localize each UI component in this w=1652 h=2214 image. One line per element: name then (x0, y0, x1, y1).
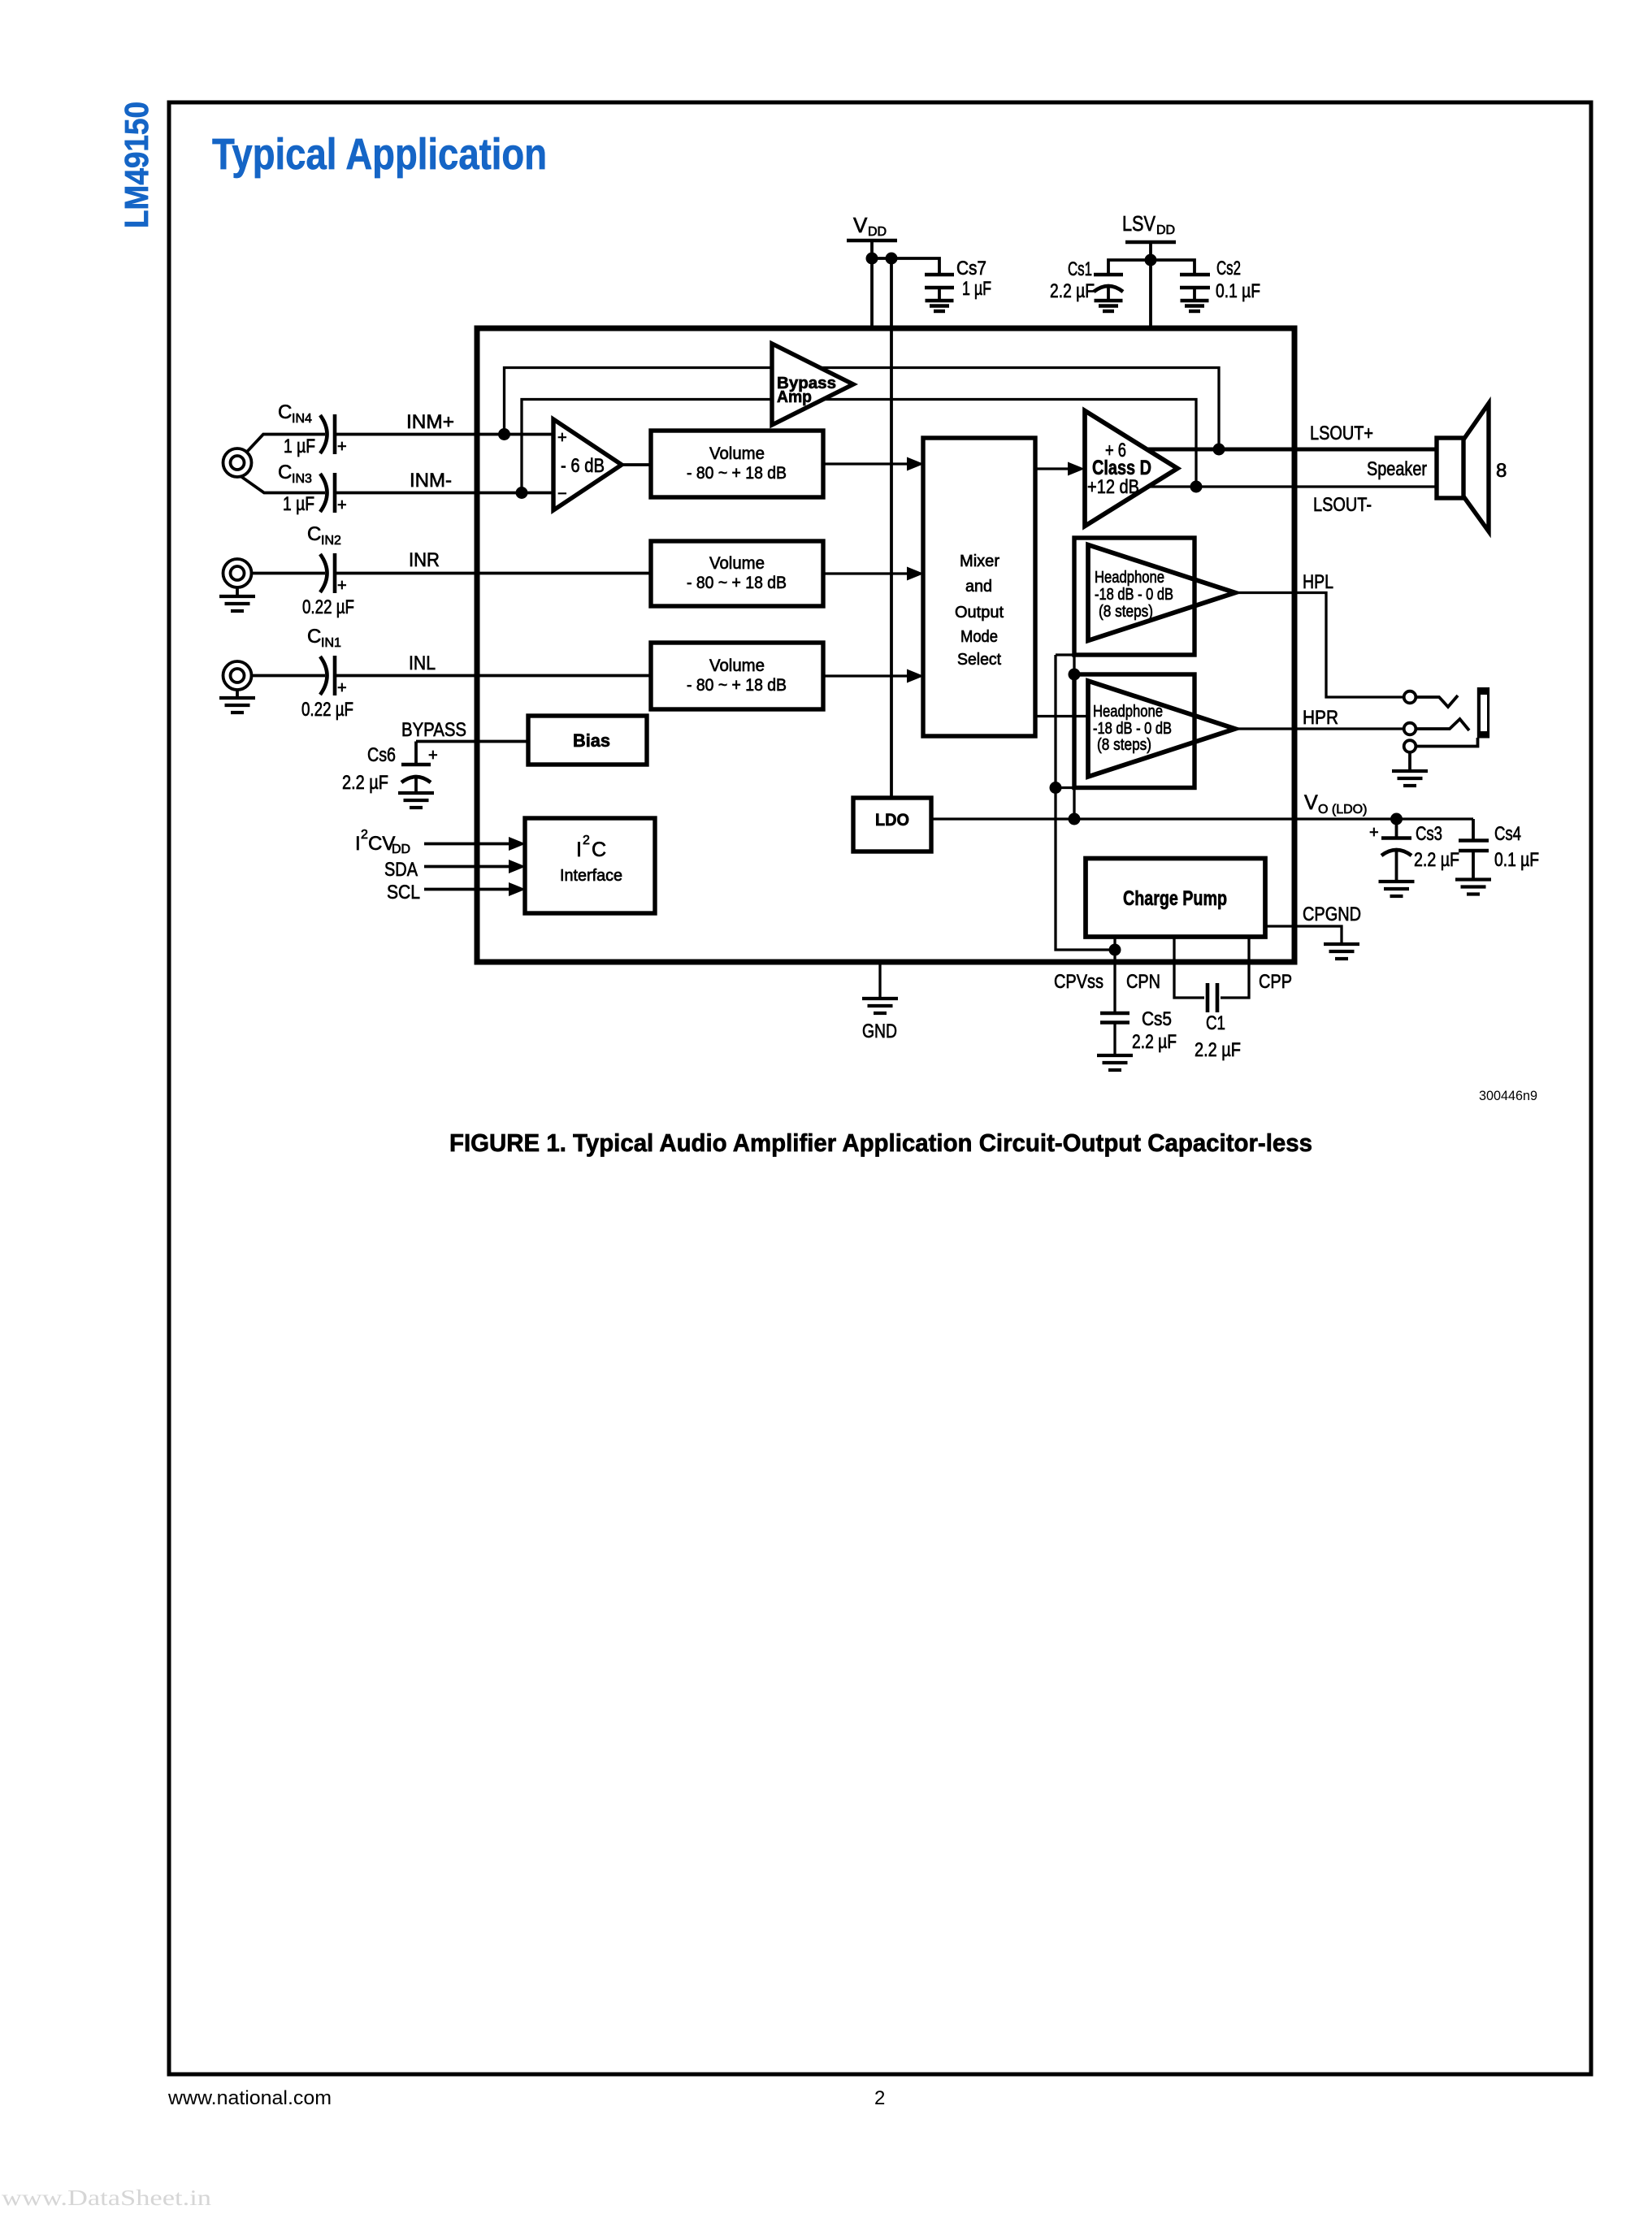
svg-text:Headphone: Headphone (1095, 569, 1164, 587)
svg-text:Mixer: Mixer (960, 552, 999, 570)
svg-text:LSOUT+: LSOUT+ (1310, 422, 1373, 444)
svg-text:BYPASS: BYPASS (401, 719, 466, 741)
svg-text:I: I (355, 833, 361, 855)
wire HPR output to jack ring (1235, 727, 1404, 730)
block Volume 2 (651, 541, 823, 606)
svg-text:2.2 µF: 2.2 µF (1050, 280, 1095, 302)
node HPR box bottom junction (1050, 782, 1062, 794)
node HPR box top junction (1069, 669, 1081, 681)
svg-text:www.DataSheet.in: www.DataSheet.in (2, 2186, 212, 2210)
node INM- feedback junction (516, 487, 528, 499)
svg-text:2.2 µF: 2.2 µF (1195, 1039, 1241, 1061)
svg-text:2: 2 (361, 828, 368, 842)
wire INL line (335, 674, 651, 678)
svg-text:Amp: Amp (777, 388, 812, 406)
node LSOUT+ feedback junction (1213, 444, 1225, 456)
svg-text:IN1: IN1 (321, 636, 341, 650)
label CIN4 (278, 401, 312, 426)
headphone jack tip switch lever (1416, 695, 1458, 707)
svg-text:0.22 µF: 0.22 µF (301, 699, 353, 721)
svg-text:C: C (307, 523, 321, 545)
svg-text:I: I (576, 838, 582, 861)
svg-text:2: 2 (583, 834, 590, 847)
wire mixer to Headphone R input (1035, 715, 1088, 717)
label Cs1 value (1050, 258, 1095, 302)
wire LSOUT- (1148, 485, 1437, 487)
capacitor C1 flying (1208, 983, 1217, 1012)
svg-text:- 80 ~ + 18 dB: - 80 ~ + 18 dB (687, 676, 787, 695)
node CPVss junction (1109, 944, 1121, 956)
svg-text:Headphone: Headphone (1093, 703, 1163, 721)
svg-text:Typical Application: Typical Application (212, 130, 547, 179)
block I2C Interface (525, 818, 655, 913)
svg-text:Output: Output (955, 604, 1004, 622)
svg-text:+: + (337, 679, 347, 697)
wire I2CVDD with arrow (424, 837, 526, 851)
svg-text:+: + (337, 577, 347, 595)
ground at jack sleeve (1392, 752, 1428, 786)
wire CPVss rail left (1056, 655, 1115, 950)
headphone jack sleeve contact (1404, 740, 1416, 752)
svg-text:+: + (1369, 824, 1379, 842)
svg-text:Cs5: Cs5 (1142, 1008, 1172, 1030)
svg-text:Interface: Interface (560, 867, 622, 885)
ground at Cs4 (1455, 880, 1491, 895)
svg-text:INM-: INM- (410, 470, 452, 492)
node VDD junction 1 (866, 253, 878, 265)
wire LSVDD into IC top (1149, 260, 1152, 328)
ground at Cs5 (1097, 1055, 1133, 1070)
svg-text:V: V (1304, 791, 1318, 814)
VDD supply bar (847, 239, 897, 243)
capacitor Cs3 polarized (1369, 819, 1411, 882)
input jack J3 INL (223, 661, 252, 690)
label Cs6 value (342, 744, 396, 794)
svg-text:DD: DD (392, 843, 410, 856)
svg-text:+: + (337, 496, 347, 514)
wire Volume1 to mixer with arrow (823, 457, 924, 471)
wire INM+ line (335, 433, 553, 436)
wire Volume3 to mixer with arrow (823, 669, 924, 683)
wire CPN from charge pump to C1 (1174, 937, 1204, 998)
svg-text:and: and (965, 578, 992, 596)
node Cs3 junction (1390, 813, 1403, 825)
wire J1 to CIN3 (241, 476, 325, 493)
wire CPVss down to Cs5 (1113, 950, 1116, 1012)
capacitor Cs2 (1180, 275, 1210, 301)
node LSOUT- feedback junction (1190, 481, 1203, 493)
wire Volume2 to mixer with arrow (823, 567, 924, 581)
svg-text:IN2: IN2 (321, 534, 341, 548)
ground at CPGND (1324, 944, 1359, 959)
headphone jack ring contact (1404, 723, 1416, 735)
svg-text:2.2 µF: 2.2 µF (1132, 1031, 1177, 1053)
svg-text:1 µF: 1 µF (284, 435, 315, 457)
svg-text:SCL: SCL (387, 882, 420, 903)
node LSVDD junction (1145, 254, 1157, 266)
headphone jack ring switch lever (1416, 719, 1469, 730)
wire LSVDD to Cs1 (1108, 260, 1151, 274)
label C1 value (1195, 1012, 1241, 1061)
label I2CVDD (355, 828, 410, 856)
svg-text:CPN: CPN (1126, 971, 1160, 993)
wire J1 to CIN4 (246, 435, 325, 453)
svg-text:Speaker: Speaker (1367, 458, 1427, 480)
capacitor CIN4 polarized (320, 414, 347, 456)
svg-text:+12 dB: +12 dB (1087, 476, 1139, 498)
capacitor Cs7 (925, 275, 954, 301)
amplifier Class D (1085, 411, 1177, 526)
wire J2 lead (252, 572, 326, 575)
svg-text:(8 steps): (8 steps) (1097, 736, 1151, 754)
ground at Cs1 (1095, 301, 1123, 311)
capacitor Cs5 (1100, 1013, 1130, 1055)
LSVDD supply label (1122, 211, 1175, 237)
svg-text:DD: DD (1156, 223, 1175, 237)
svg-text:INL: INL (409, 652, 436, 674)
op-amp -6dB input stage (553, 419, 622, 510)
svg-text:Cs6: Cs6 (367, 744, 396, 766)
svg-text:LSOUT-: LSOUT- (1313, 494, 1372, 516)
label Cs5 value (1132, 1008, 1177, 1053)
wire VDD down to LDO (890, 258, 893, 798)
svg-text:C1: C1 (1206, 1012, 1225, 1034)
op-amp Bypass Amp (772, 344, 853, 425)
capacitor Cs4 (1459, 819, 1489, 880)
svg-text:Cs3: Cs3 (1416, 823, 1442, 845)
svg-text:Bias: Bias (573, 730, 610, 751)
headphone jack tip contact (1404, 691, 1416, 704)
wire -6dB output (622, 463, 651, 466)
wire HPL output to jack tip (1235, 593, 1404, 698)
wire HPR box bottom extension (1056, 786, 1074, 789)
IC block LM49150 outline (477, 328, 1294, 962)
wire J3 lead (252, 674, 326, 678)
svg-text:CPGND: CPGND (1303, 903, 1361, 925)
capacitor Cs1 polarized (1094, 275, 1123, 301)
speaker LS1 (1437, 404, 1489, 532)
svg-text:(8 steps): (8 steps) (1099, 603, 1153, 621)
wire feedback upper from INM+ to LSOUT+ (505, 368, 1220, 450)
wire LSVDD to Cs2 (1151, 260, 1195, 274)
ground at Cs2 (1181, 301, 1209, 311)
svg-text:2.2 µF: 2.2 µF (1414, 849, 1459, 871)
svg-text:Cs4: Cs4 (1494, 823, 1521, 845)
svg-text:Cs7: Cs7 (956, 258, 986, 279)
svg-text:CPVss: CPVss (1054, 971, 1104, 993)
svg-text:HPL: HPL (1303, 571, 1333, 593)
wire INM- line (335, 492, 553, 495)
wire GND stub (878, 962, 881, 999)
svg-text:GND: GND (862, 1020, 897, 1042)
block LDO (853, 798, 931, 851)
svg-text:Charge Pump: Charge Pump (1123, 887, 1227, 910)
wire VO LDO output line (931, 817, 1473, 820)
svg-text:Volume: Volume (709, 656, 765, 675)
wire sleeve to jack body (1416, 738, 1477, 747)
block Volume 1 (651, 431, 823, 497)
svg-text:+: + (428, 747, 438, 765)
wire INR line (335, 572, 651, 575)
svg-text:www.national.com: www.national.com (167, 2087, 332, 2109)
block Mixer and Output Mode Select (923, 438, 1035, 736)
svg-text:SDA: SDA (384, 859, 418, 881)
capacitor Cs6 polarized (401, 742, 438, 794)
ground at Cs3 (1379, 882, 1415, 896)
svg-text:+: + (337, 438, 347, 456)
svg-text:O (LDO): O (LDO) (1318, 803, 1367, 817)
svg-text:C: C (592, 838, 606, 861)
wire VDD to Cs7 (872, 258, 939, 274)
amplifier Headphone R (1088, 681, 1235, 777)
svg-text:- 6 dB: - 6 dB (561, 455, 605, 477)
svg-text:−: − (557, 485, 567, 503)
svg-text:0.1 µF: 0.1 µF (1216, 280, 1260, 302)
label Cs7 value (956, 258, 991, 300)
wire HPL box bottom extension (1056, 653, 1074, 656)
svg-text:HPR: HPR (1303, 707, 1338, 729)
wire mixer to Class D with arrow (1035, 462, 1085, 476)
wire VDD into IC top (870, 258, 874, 328)
svg-text:-18 dB - 0 dB: -18 dB - 0 dB (1093, 720, 1172, 738)
svg-text:INM+: INM+ (406, 411, 454, 433)
wire SDA with arrow (424, 860, 526, 873)
label VO (LDO) (1304, 791, 1367, 817)
LSVDD supply bar (1125, 240, 1176, 245)
svg-text:LM49150: LM49150 (118, 102, 155, 228)
label CIN3 (278, 461, 312, 486)
svg-text:LDO: LDO (875, 811, 909, 830)
ground at Cs6 (398, 793, 434, 808)
label CIN2 (307, 523, 341, 548)
svg-text:DD: DD (868, 225, 887, 239)
block Charge Pump (1086, 859, 1265, 938)
wire CPGND from charge pump (1265, 926, 1342, 944)
svg-text:IN3: IN3 (292, 472, 312, 486)
svg-text:0.22 µF: 0.22 µF (302, 596, 354, 618)
ground at Cs7 (926, 301, 954, 311)
wire VO rail to HP boxes (1073, 655, 1075, 819)
ground GND main (862, 999, 898, 1013)
input jack J1 differential (223, 448, 252, 477)
svg-text:LSV: LSV (1122, 211, 1156, 236)
block Volume 3 (651, 643, 823, 709)
amplifier Headphone L (1088, 545, 1235, 641)
svg-text:1 µF: 1 µF (962, 278, 991, 300)
svg-text:2: 2 (874, 2087, 885, 2109)
label Cs2 value (1216, 258, 1260, 302)
wire BYPASS line (416, 740, 528, 743)
VDD supply label (853, 213, 887, 239)
svg-text:C: C (307, 626, 321, 648)
ground at J2 (219, 587, 255, 611)
svg-text:V: V (853, 213, 868, 237)
wire VDD stub (870, 240, 874, 258)
wire LSVDD stub (1149, 242, 1152, 260)
svg-text:CPP: CPP (1259, 971, 1292, 993)
node INM+ feedback junction (498, 428, 510, 440)
svg-text:- 80 ~ + 18 dB: - 80 ~ + 18 dB (687, 464, 787, 483)
svg-text:Cs2: Cs2 (1216, 258, 1241, 279)
svg-text:Cs1: Cs1 (1068, 258, 1092, 280)
svg-text:+: + (557, 429, 567, 447)
wire feedback lower from INM- to LSOUT- (522, 400, 1196, 493)
page frame border (169, 102, 1591, 2074)
svg-text:FIGURE 1. Typical Audio Amplif: FIGURE 1. Typical Audio Amplifier Applic… (449, 1129, 1312, 1157)
capacitor CIN2 polarized (320, 553, 347, 595)
input jack J2 INR (223, 559, 252, 587)
svg-text:8: 8 (1496, 460, 1507, 482)
wire SCL with arrow (424, 882, 526, 896)
svg-text:- 80 ~ + 18 dB: - 80 ~ + 18 dB (687, 574, 787, 592)
ground at J3 (219, 690, 255, 713)
block Bias (528, 716, 647, 765)
svg-text:C: C (278, 461, 292, 483)
node VO rail junction (1069, 813, 1081, 825)
svg-text:300446n9: 300446n9 (1479, 1088, 1537, 1103)
capacitor CIN1 polarized (320, 656, 347, 697)
label Cs4 value (1494, 823, 1539, 871)
svg-text:C: C (278, 401, 292, 423)
wire CPVss stub from charge pump (1113, 937, 1116, 950)
block headphone R supply box (1074, 674, 1195, 788)
svg-text:INR: INR (409, 549, 440, 571)
svg-text:1 µF: 1 µF (283, 493, 314, 515)
node VDD junction 2 (886, 253, 898, 265)
capacitor CIN3 polarized (320, 473, 347, 514)
svg-text:Volume: Volume (709, 444, 765, 463)
svg-text:2.2 µF: 2.2 µF (342, 772, 388, 794)
label Cs3 value (1414, 823, 1459, 871)
block headphone L supply box (1074, 538, 1195, 655)
svg-text:-18 dB - 0 dB: -18 dB - 0 dB (1095, 586, 1173, 604)
svg-text:Volume: Volume (709, 554, 765, 573)
wire CPP from C1 to charge pump (1221, 937, 1249, 998)
svg-text:IN4: IN4 (292, 412, 312, 426)
wire LSOUT+ (1147, 448, 1437, 452)
label CIN1 (307, 626, 341, 650)
svg-text:Select: Select (957, 651, 1001, 669)
svg-text:0.1 µF: 0.1 µF (1494, 849, 1539, 871)
headphone jack body (1477, 687, 1489, 739)
svg-text:Mode: Mode (960, 628, 998, 646)
